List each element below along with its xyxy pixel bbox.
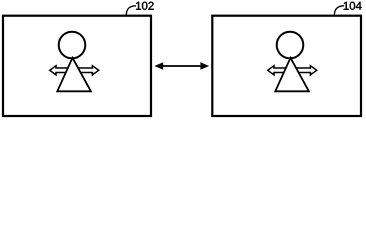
- leader 104: [334, 6, 344, 16]
- leader 102: [126, 6, 136, 16]
- box 104: [212, 16, 361, 116]
- label 102: [136, 2, 154, 10]
- box 102: [3, 16, 151, 116]
- double-headed arrow link between box 102 and box 104: [154, 62, 209, 70]
- person in box 102: [50, 32, 99, 92]
- label 104: [344, 2, 362, 10]
- link shaft: [161, 65, 203, 67]
- left arrowhead: [154, 62, 163, 70]
- right arrowhead: [200, 62, 209, 70]
- person in box 104: [268, 32, 317, 92]
